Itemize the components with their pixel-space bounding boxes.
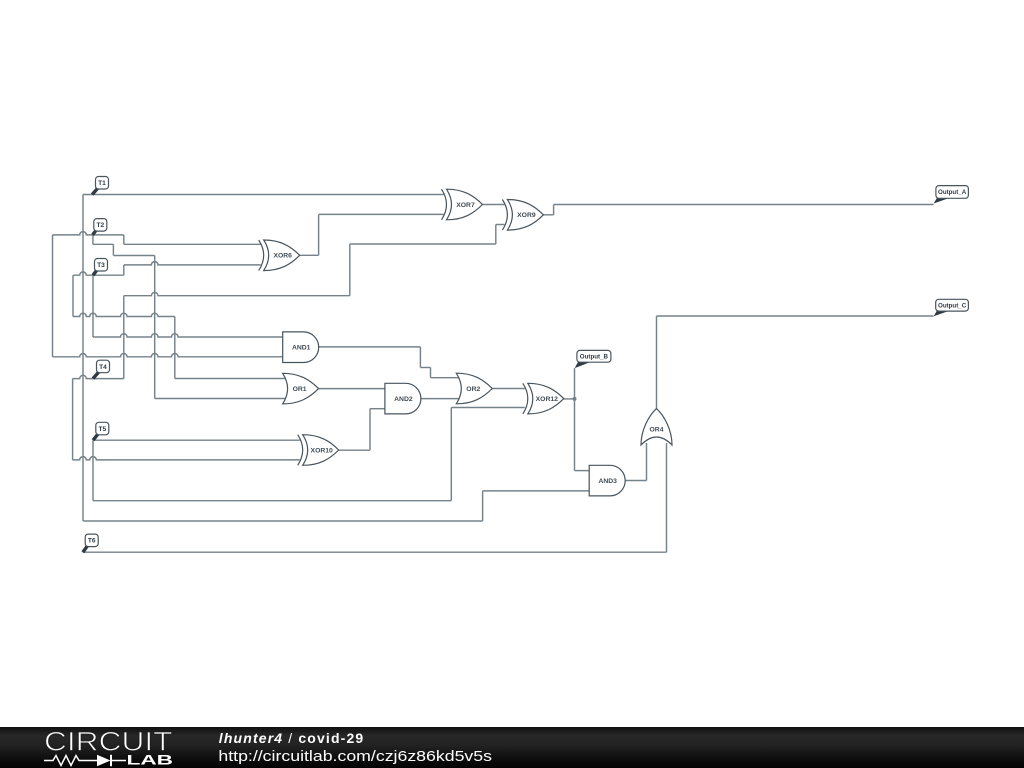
svg-text:OR2: OR2 [466,386,480,393]
svg-text:T2: T2 [96,222,104,229]
svg-text:T4: T4 [99,364,107,371]
svg-text:OR4: OR4 [650,427,664,434]
svg-text:XOR12: XOR12 [536,396,559,403]
svg-text:AND1: AND1 [292,345,311,352]
svg-text:AND3: AND3 [598,478,617,485]
svg-text:XOR10: XOR10 [311,447,334,454]
svg-text:lhunter4 / covid-29: lhunter4 / covid-29 [219,730,365,746]
svg-text:Output_A: Output_A [938,189,967,196]
svg-text:T1: T1 [98,180,106,187]
svg-text:http://circuitlab.com/czj6z86k: http://circuitlab.com/czj6z86kd5v5s [218,749,492,765]
svg-text:Output_C: Output_C [938,303,967,310]
svg-text:XOR6: XOR6 [273,253,292,260]
svg-text:T3: T3 [97,262,105,269]
svg-text:OR1: OR1 [293,386,307,393]
svg-text:XOR9: XOR9 [517,212,536,219]
svg-text:AND2: AND2 [394,396,413,403]
svg-text:Output_B: Output_B [580,354,609,361]
svg-text:XOR7: XOR7 [456,202,475,209]
svg-text:T6: T6 [88,538,96,545]
svg-text:T5: T5 [98,426,106,433]
svg-text:LAB: LAB [127,752,174,768]
